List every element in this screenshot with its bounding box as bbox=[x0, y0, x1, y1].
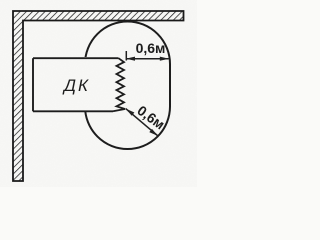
top dimension left arrowhead bbox=[126, 57, 135, 61]
wall (hatched L-shaped corner: ceiling band + left wall band) bbox=[13, 11, 184, 181]
detector box DK top edge bbox=[33, 57, 119, 59]
extension tick for top dimension bbox=[125, 51, 127, 61]
detector box DK (covers zone outline) bbox=[33, 57, 120, 112]
diagonal dimension upper arrowhead bbox=[126, 109, 135, 116]
diagonal dimension line 0,6 m bbox=[126, 109, 158, 136]
zigzag right edge of DK box bbox=[113, 58, 125, 111]
diagonal dimension lower arrowhead bbox=[149, 129, 158, 136]
detection zone (0.6 m capsule outline) bbox=[85, 22, 170, 150]
detector box DK left edge bbox=[32, 58, 34, 111]
top dimension right arrowhead bbox=[160, 57, 169, 61]
background paper bbox=[0, 0, 197, 187]
paper grain bbox=[0, 0, 1, 1]
top dimension line 0,6 m bbox=[126, 58, 169, 60]
detector box DK bottom edge bbox=[33, 110, 113, 112]
